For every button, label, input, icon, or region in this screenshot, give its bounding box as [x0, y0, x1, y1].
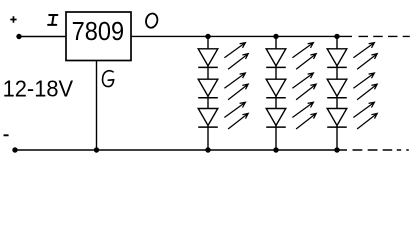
LED D11	[198, 43, 248, 70]
LED D23	[266, 102, 316, 129]
- terminal (negative supply)	[4, 134, 9, 136]
wire: LED string 1 vertical wire	[207, 36, 209, 150]
node: negative terminal junction dot	[12, 147, 17, 152]
node: string 3 top rail junction dot	[334, 34, 339, 39]
pin label I (input)	[48, 15, 57, 25]
LED D33	[327, 102, 377, 129]
svg-text:12-18V: 12-18V	[3, 76, 74, 102]
LED D12	[198, 73, 248, 100]
node: string 2 top rail junction dot	[273, 34, 278, 39]
node: string 3 bottom rail junction dot	[334, 147, 339, 152]
wire: bottom rail (negative return)	[15, 149, 347, 151]
LED D32	[327, 73, 377, 100]
node: string 1 bottom rail junction dot	[205, 147, 210, 152]
node: string 1 top rail junction dot	[205, 34, 210, 39]
wire: top rail from regulator output O across LED strings	[131, 35, 352, 37]
LED D13	[198, 102, 248, 129]
LED D21	[266, 43, 316, 70]
node: input terminal junction dot	[16, 34, 21, 39]
LED D31	[327, 43, 377, 70]
wire: + terminal to regulator input pin I	[19, 36, 66, 38]
wire: dashed bottom rail continuation	[353, 149, 409, 151]
node: string 2 bottom rail junction dot	[273, 147, 278, 152]
+ terminal (positive supply)	[10, 16, 16, 22]
LED D22	[266, 73, 316, 100]
node: ground wire junction dot on bottom rail	[94, 147, 99, 152]
pin label O (output)	[145, 12, 159, 29]
wire: regulator ground pin G to bottom rail	[96, 61, 98, 151]
pin label G (ground)	[103, 71, 114, 87]
voltage regulator 7809 body	[66, 12, 131, 61]
wire: LED string 3 vertical wire	[336, 36, 338, 150]
svg-text:7809: 7809	[72, 16, 125, 46]
wire: LED string 2 vertical wire	[275, 36, 277, 150]
wire: dashed top rail continuation	[359, 35, 410, 37]
